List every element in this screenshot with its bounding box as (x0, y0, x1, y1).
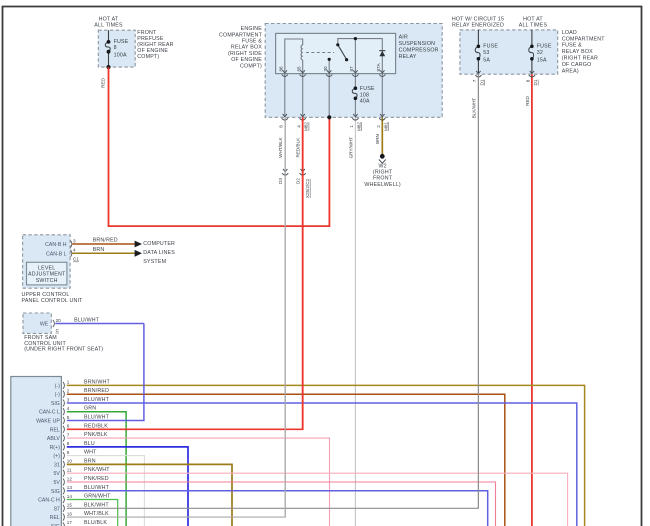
inline connector D3 (on WHT/BLK) (282, 169, 288, 175)
svg-text:AREA): AREA) (562, 68, 579, 74)
svg-text:(-): (-) (55, 383, 60, 389)
svg-text:SWITCH: SWITCH (36, 278, 58, 284)
wire BLK/WHT from pin 15 (67, 74, 479, 508)
svg-text:R(+): R(+) (50, 445, 61, 451)
svg-text:RED/BLK: RED/BLK (296, 137, 301, 158)
svg-text:4: 4 (67, 406, 70, 411)
svg-text:WAKE UP: WAKE UP (36, 419, 60, 425)
svg-text:(UNDER RIGHT FRONT SEAT): (UNDER RIGHT FRONT SEAT) (24, 347, 103, 353)
wire RED/BLK from pin 6 (67, 117, 303, 429)
svg-text:CAN-B L: CAN-B L (46, 251, 67, 257)
label: ENGINE COMPARTMENT FUSE & RELAY BOX (219, 26, 263, 69)
label: LOAD COMPARTMENT FUSE & RELAY BOX (562, 30, 606, 74)
svg-text:GRN/WHT: GRN/WHT (84, 494, 111, 500)
svg-text:BLU/WHT: BLU/WHT (84, 485, 110, 491)
inline connector D2 / X25/2/C2 (on RED/BLK) (300, 169, 306, 175)
svg-text:D1: D1 (479, 79, 484, 85)
junction on rail at pin 87 (354, 37, 357, 40)
svg-text:ALL TIMES: ALL TIMES (519, 22, 548, 28)
wire GRN from pin 4 (67, 412, 126, 526)
svg-text:RED: RED (525, 95, 530, 105)
svg-text:FUSE: FUSE (360, 86, 375, 92)
label: COMPUTER DATA LINES SYSTEM (143, 241, 175, 265)
relay switch armature (338, 45, 347, 60)
svg-text:20: 20 (56, 318, 62, 323)
svg-text:FRONT: FRONT (373, 176, 393, 182)
svg-text:BRN: BRN (93, 247, 105, 253)
label: UPPER CONTROL PANEL CONTROL UNIT (22, 292, 84, 304)
svg-text:COMPRESSOR: COMPRESSOR (399, 48, 439, 54)
svg-text:X25/2/C2: X25/2/C2 (305, 178, 310, 198)
svg-text:SIG: SIG (51, 401, 60, 407)
power feed label: HOT W/ CIRCUIT 15 RELAY ENERGIZED (452, 17, 504, 29)
svg-text:FUSE &: FUSE & (562, 43, 582, 49)
svg-text:8: 8 (526, 79, 531, 82)
svg-text:FUSE: FUSE (537, 43, 552, 49)
wire WHT/BLK: relay pin 86 down to pin 16 row (284, 117, 286, 517)
svg-text:CAN-B H: CAN-B H (45, 242, 67, 248)
svg-text:BRN: BRN (84, 458, 96, 464)
junction: fuse 8 output node (106, 65, 110, 69)
svg-text:17: 17 (67, 520, 73, 525)
svg-text:5: 5 (67, 415, 70, 420)
svg-text:(-): (-) (55, 392, 60, 398)
svg-text:12: 12 (67, 476, 73, 481)
svg-text:PNK/BLK: PNK/BLK (84, 432, 108, 438)
connector symbols at relay inner box pins (282, 70, 288, 76)
svg-text:31: 31 (54, 462, 60, 468)
svg-text:RED/BLK: RED/BLK (84, 423, 108, 429)
svg-text:WE: WE (40, 322, 49, 328)
fuse F53 5A (477, 30, 479, 74)
svg-text:SUSPENSION: SUSPENSION (399, 41, 436, 47)
fuse F32 15A (531, 30, 533, 74)
svg-text:11: 11 (67, 468, 72, 473)
wire BRN/WHT from pin 1 (67, 385, 585, 526)
wire WHT from pin 9 (67, 456, 145, 526)
svg-text:D3: D3 (278, 178, 283, 184)
svg-text:8: 8 (278, 125, 283, 128)
arrow: data line L (135, 250, 142, 257)
wire BRN: CAN-B L to computer data lines (72, 252, 135, 254)
svg-text:2: 2 (67, 389, 70, 394)
svg-text:OF ENGINE: OF ENGINE (231, 57, 262, 63)
svg-text:5V: 5V (53, 471, 60, 477)
svg-text:RELAY BOX: RELAY BOX (562, 49, 593, 55)
svg-text:DATA LINES: DATA LINES (143, 250, 175, 256)
svg-text:GRN: GRN (84, 406, 96, 412)
svg-text:4: 4 (73, 248, 76, 253)
svg-text:100A: 100A (114, 52, 127, 58)
svg-text:COMPT): COMPT) (240, 63, 262, 69)
svg-text:OF CARGO: OF CARGO (562, 62, 592, 68)
wire BLU/WHT: front SAM WE pin 20 horizontal run (55, 323, 144, 325)
arrow: data line H (135, 241, 142, 248)
svg-text:108: 108 (360, 92, 369, 98)
svg-text:4: 4 (296, 125, 301, 128)
svg-text:SYSTEM: SYSTEM (143, 259, 166, 265)
svg-text:5V: 5V (53, 480, 60, 486)
wire RED/BLK: relay pin 85 down to pin 6 row (302, 117, 304, 429)
relay pin 30 riser (328, 60, 330, 74)
label: FRONT SAM CONTROL UNIT (UNDER RIGHT FRONT SEAT) (24, 335, 103, 353)
wire BRN/RED: CAN-B H to computer data lines (72, 243, 135, 245)
junction: relay pin 30 at box edge (327, 115, 331, 119)
svg-text:LEVEL: LEVEL (38, 265, 55, 271)
diode at pin 87A (379, 50, 385, 52)
svg-text:BLU/BLK: BLU/BLK (84, 520, 107, 526)
svg-text:REL: REL (50, 515, 60, 521)
svg-text:LOAD: LOAD (562, 30, 577, 36)
svg-text:COMPARTMENT: COMPARTMENT (562, 36, 606, 42)
svg-text:16: 16 (67, 511, 73, 516)
svg-text:9: 9 (67, 450, 70, 455)
relay contact rail 87/87A (338, 39, 383, 74)
relay K (inner box) (276, 33, 396, 73)
svg-text:M82: M82 (356, 122, 361, 131)
connector symbols at load box exits (475, 71, 481, 77)
wire WHT/BLK from pin 16 (67, 117, 285, 517)
svg-text:BRN/WHT: BRN/WHT (84, 379, 111, 385)
svg-text:PNK/WHT: PNK/WHT (84, 467, 110, 473)
wire BLU/WHT from pin 5 (67, 324, 144, 421)
level adjustment switch (inner box) (27, 262, 67, 285)
wire RED: fuse 8 down, across, up to relay pin 30 (109, 67, 330, 226)
svg-text:87: 87 (54, 506, 60, 512)
relay coil branch: pin 86 to pin 85 (285, 39, 303, 74)
relay coil (pin 85) (301, 45, 303, 60)
svg-text:BRN/RED: BRN/RED (84, 388, 109, 394)
svg-text:C1: C1 (73, 257, 79, 262)
svg-text:ABLV: ABLV (47, 436, 60, 442)
svg-text:(RIGHT REAR: (RIGHT REAR (562, 56, 598, 62)
svg-text:WHT/BLK: WHT/BLK (278, 136, 283, 157)
svg-text:13: 13 (67, 485, 73, 490)
svg-text:(RIGHT: (RIGHT (373, 170, 393, 176)
svg-text:COMPUTER: COMPUTER (143, 241, 175, 247)
svg-text:WHEELWELL): WHEELWELL) (364, 182, 400, 188)
svg-text:AIR: AIR (399, 34, 408, 40)
svg-text:CAN-C H: CAN-C H (38, 498, 60, 504)
svg-text:BLK/WHT: BLK/WHT (471, 98, 476, 119)
load compartment fuse & relay box (dashed) (460, 30, 558, 74)
svg-text:BRN: BRN (375, 134, 380, 144)
svg-text:BLU: BLU (84, 441, 95, 447)
wire BLU/WHT from pin 3 (67, 403, 577, 526)
svg-text:15: 15 (67, 503, 73, 508)
svg-text:RELAY ENERGIZED: RELAY ENERGIZED (452, 22, 504, 28)
svg-text:15A: 15A (537, 58, 547, 64)
svg-text:1: 1 (67, 380, 70, 385)
engine compartment fuse & relay box (dashed) (265, 24, 442, 118)
svg-text:BLK/WHT: BLK/WHT (84, 502, 109, 508)
wire PNK/BLK from pin 7 (67, 438, 330, 526)
front prefuse box (dashed) (98, 30, 135, 67)
svg-text:BLU/WHT: BLU/WHT (84, 415, 110, 421)
svg-text:SIG: SIG (51, 489, 60, 495)
svg-text:M81: M81 (383, 122, 388, 131)
svg-text:7: 7 (472, 79, 477, 82)
svg-text:10: 10 (67, 459, 73, 464)
svg-text:14: 14 (67, 494, 73, 499)
svg-text:D2: D2 (295, 178, 300, 184)
svg-text:3: 3 (73, 238, 76, 243)
svg-text:5A: 5A (483, 58, 490, 64)
svg-text:RELAY: RELAY (399, 54, 417, 60)
svg-text:PNK/RED: PNK/RED (84, 476, 109, 482)
svg-text:8: 8 (67, 441, 70, 446)
connector symbols at relay outer box exits (282, 114, 288, 120)
fuse F8 100A (105, 30, 128, 67)
wire BLU from pin 8 (67, 447, 188, 526)
svg-text:53: 53 (483, 50, 489, 56)
wire PNK/WHT from pin 11 (67, 473, 568, 526)
wire BRN: relay pin 87A to ground W2 (381, 117, 383, 154)
svg-text:REL: REL (50, 427, 60, 433)
ground W2 (right front wheelwell) (380, 154, 385, 159)
svg-text:7: 7 (67, 432, 70, 437)
svg-text:32: 32 (537, 50, 543, 56)
wire BLU/WHT from pin 13 (67, 491, 488, 526)
svg-text:D1: D1 (533, 79, 538, 85)
pin drops inside relay box (285, 74, 383, 118)
svg-text:8: 8 (114, 45, 117, 51)
svg-text:1: 1 (349, 125, 354, 128)
svg-text:ADJUSTMENT: ADJUSTMENT (28, 272, 66, 278)
wire BLK/WHT: load fuse 53 down to pin 15 row (477, 74, 479, 508)
svg-text:FUSE: FUSE (483, 43, 498, 49)
svg-text:RED: RED (101, 77, 106, 87)
svg-text:WHT/BLK: WHT/BLK (84, 511, 109, 517)
svg-text:FUSE &: FUSE & (242, 39, 262, 45)
dashed actuation link (306, 52, 334, 54)
svg-text:BRN/RED: BRN/RED (93, 238, 118, 244)
wire PNK/RED from pin 12 (67, 482, 496, 526)
svg-text:(+): (+) (53, 454, 60, 460)
wire GRY/WHT: relay pin 87 down off page (354, 117, 356, 526)
power feed label: HOT AT ALL TIMES (front prefuse) (94, 17, 123, 29)
wire GRN/WHT from pin 14 (67, 500, 118, 526)
svg-text:(RIGHT SIDE: (RIGHT SIDE (228, 51, 262, 57)
wire BRN/RED from pin 2 (67, 394, 505, 526)
relay pin 87 riser (354, 39, 356, 74)
svg-text:COMPT): COMPT) (137, 54, 159, 60)
fuse F108 40A (354, 74, 356, 118)
svg-text:ALL TIMES: ALL TIMES (94, 22, 123, 28)
svg-text:PANEL CONTROL UNIT: PANEL CONTROL UNIT (22, 298, 84, 304)
label: FRONT PREFUSE (RIGHT REAR OF ENGINE COMPT) (137, 30, 173, 60)
svg-text:W2: W2 (378, 164, 386, 170)
suspension control unit connector block (11, 377, 62, 526)
upper control panel control unit box (dashed) (23, 235, 71, 288)
svg-text:RELAY BOX: RELAY BOX (231, 45, 262, 51)
svg-text:2: 2 (376, 125, 381, 128)
front SAM control unit box (dashed) (23, 313, 51, 333)
svg-text:CAN-C L: CAN-C L (39, 410, 60, 416)
svg-text:COMPARTMENT: COMPARTMENT (219, 32, 263, 38)
svg-text:6: 6 (67, 424, 70, 429)
svg-text:GRY/WHT: GRY/WHT (348, 137, 353, 159)
power feed label: HOT AT ALL TIMES (load box) (519, 17, 548, 29)
label: AIR SUSPENSION COMPRESSOR RELAY (399, 34, 439, 60)
svg-text:M82: M82 (304, 122, 309, 131)
svg-text:40A: 40A (360, 99, 370, 105)
svg-text:ENGINE: ENGINE (241, 26, 263, 32)
svg-text:BLU/WHT: BLU/WHT (84, 397, 110, 403)
wire RED: load fuse 32 down off page (531, 74, 533, 526)
svg-text:3: 3 (67, 397, 70, 402)
wire BRN from pin 10 (67, 464, 232, 526)
svg-text:WHT: WHT (84, 450, 97, 456)
